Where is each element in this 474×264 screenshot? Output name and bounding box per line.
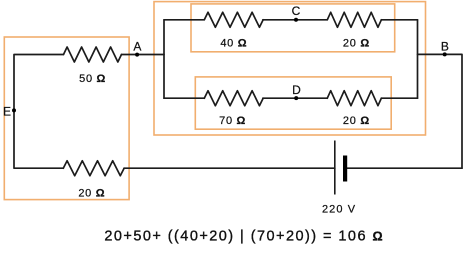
wire: top branch out to right junction <box>381 19 417 21</box>
wire: bottom branch lead into 70 ohm <box>164 97 204 99</box>
node B junction dot <box>443 52 447 56</box>
svg-text:20 Ω: 20 Ω <box>343 37 370 49</box>
node A junction dot <box>135 53 139 57</box>
svg-text:E: E <box>3 104 11 118</box>
wire: right junction to node B corner down to battery level <box>418 54 463 168</box>
resistor 20 ohm (bottom right) <box>327 91 381 106</box>
battery 220 V: short thick plate <box>343 156 347 182</box>
svg-text:D: D <box>292 83 301 97</box>
node D junction dot <box>294 96 298 100</box>
svg-text:B: B <box>441 39 449 53</box>
highlight box: left series group (50 ohm + 20 ohm) <box>4 37 129 200</box>
wire: bottom 20 ohm to battery positive plate <box>124 167 335 169</box>
wire: left junction vertical (A to branches) <box>163 20 165 98</box>
wire: 50 ohm to node A to left junction <box>121 54 164 56</box>
battery 220 V: long plate <box>334 141 336 195</box>
svg-text:70 Ω: 70 Ω <box>219 115 246 127</box>
resistor 20 ohm (top right) <box>327 12 381 27</box>
wire: top branch lead into 40 ohm <box>164 19 204 21</box>
svg-text:C: C <box>292 4 301 18</box>
wire: bottom branch out to right junction <box>381 97 417 99</box>
wire: left loop E-side (top wire, left vertical, bottom wire to 20 ohm) <box>14 55 64 169</box>
svg-text:20 Ω: 20 Ω <box>343 115 370 127</box>
wire: 70 ohm to node D to 20 ohm (bottom) <box>263 97 328 99</box>
node C junction dot <box>294 18 298 22</box>
wire: right junction vertical (branches to B) <box>417 20 419 98</box>
svg-text:40 Ω: 40 Ω <box>220 37 247 49</box>
resistor 50 ohm <box>64 47 122 62</box>
svg-text:20 Ω: 20 Ω <box>78 188 105 200</box>
resistor 70 ohm <box>204 91 263 106</box>
highlight box: parallel network outer <box>154 2 426 135</box>
resistor 20 ohm (bottom left) <box>63 161 124 176</box>
svg-text:50 Ω: 50 Ω <box>79 73 106 85</box>
highlight box: top branch (40 ohm + 20 ohm) <box>191 4 395 52</box>
svg-text:220 V: 220 V <box>322 203 356 215</box>
node E junction dot <box>12 108 16 112</box>
svg-text:20+50+ ((40+20) | (70+20)) = 1: 20+50+ ((40+20) | (70+20)) = 106 Ω <box>104 228 384 244</box>
resistor 40 ohm <box>204 12 263 27</box>
svg-text:A: A <box>133 39 141 53</box>
wire: battery negative plate to right vertical <box>347 167 462 169</box>
highlight box: bottom branch (70 ohm + 20 ohm) <box>195 77 391 129</box>
wire: 40 ohm to node C to 20 ohm (top) <box>263 19 328 21</box>
